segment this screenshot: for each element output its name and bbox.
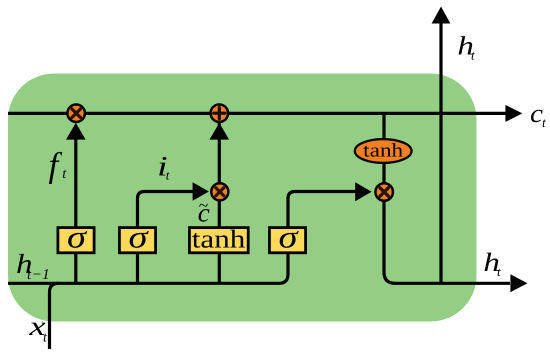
svg-text:σ: σ — [129, 219, 149, 255]
svg-text:t−1: t−1 — [27, 267, 50, 283]
svg-text:t: t — [471, 47, 475, 62]
gate box sigma 1 — [58, 219, 94, 255]
arrowhead into multiply node 1 — [66, 123, 86, 140]
wire: candidate line — [218, 113, 221, 226]
svg-text:t: t — [43, 331, 48, 346]
arrowhead h_t right — [510, 274, 527, 292]
arrowhead into multiply node 3 — [355, 182, 371, 201]
wire: input gate elbow i — [138, 192, 195, 227]
add node — [211, 104, 229, 122]
svg-text:t: t — [497, 264, 501, 279]
svg-text:tanh: tanh — [192, 225, 246, 254]
multiply node 2 — [211, 183, 228, 200]
arrowhead into multiply node 2 — [193, 182, 209, 200]
wire: output gate elbow — [288, 192, 356, 227]
svg-text:tanh: tanh — [363, 141, 403, 162]
LSTM cell body — [8, 74, 477, 322]
arrowhead into add node — [210, 123, 230, 140]
svg-text:~: ~ — [199, 195, 208, 215]
svg-text:σ: σ — [67, 219, 87, 255]
wire: candidate down line — [218, 254, 221, 283]
multiply node 1 — [67, 104, 85, 122]
arrowhead h_t top — [432, 7, 451, 24]
svg-text:σ: σ — [279, 219, 299, 255]
gate box sigma 3 — [269, 219, 305, 255]
activation ellipse tanh — [355, 139, 412, 163]
wire: hidden state input line h_t-1 — [8, 253, 288, 283]
gate box sigma 2 — [119, 219, 155, 255]
gate box tanh — [189, 225, 248, 254]
wire: output line to h_t — [384, 113, 510, 283]
wire: forget gate up line — [74, 130, 77, 227]
arrowhead c_t — [505, 105, 522, 122]
wire: input gate down line — [136, 254, 139, 283]
svg-text:t: t — [166, 168, 170, 183]
wire: h_t up line — [439, 22, 442, 283]
svg-text:t: t — [542, 115, 547, 130]
multiply node 3 — [375, 183, 393, 201]
wire: x_t input — [50, 283, 59, 349]
wire: forget gate down line — [74, 254, 77, 283]
wire: cell state line c — [8, 112, 506, 115]
